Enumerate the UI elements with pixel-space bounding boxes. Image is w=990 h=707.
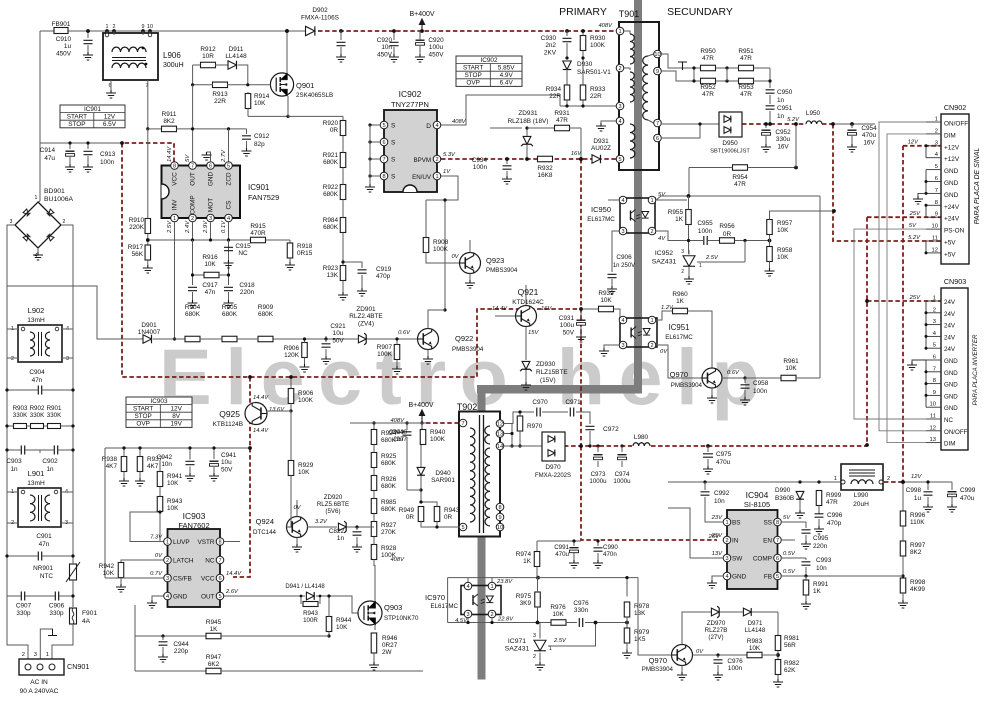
svg-text:GND: GND bbox=[944, 358, 958, 365]
svg-text:2.5V: 2.5V bbox=[167, 220, 173, 234]
svg-text:25V: 25V bbox=[909, 211, 921, 217]
svg-text:0R15: 0R15 bbox=[297, 250, 313, 257]
svg-text:R904: R904 bbox=[185, 304, 201, 311]
svg-text:Q923: Q923 bbox=[486, 256, 504, 265]
svg-text:10: 10 bbox=[930, 402, 936, 408]
svg-text:2W: 2W bbox=[382, 649, 393, 656]
svg-text:10K: 10K bbox=[552, 611, 564, 618]
svg-text:10K: 10K bbox=[298, 469, 310, 476]
svg-text:STOP: STOP bbox=[465, 72, 482, 79]
svg-text:5: 5 bbox=[382, 123, 385, 129]
svg-text:100n: 100n bbox=[753, 388, 768, 395]
svg-text:2: 2 bbox=[681, 269, 684, 275]
svg-text:LUVP: LUVP bbox=[173, 539, 190, 546]
svg-text:7: 7 bbox=[461, 421, 464, 427]
svg-text:8: 8 bbox=[382, 174, 385, 180]
svg-text:C921: C921 bbox=[330, 323, 346, 330]
svg-text:56K: 56K bbox=[132, 251, 144, 258]
svg-text:9: 9 bbox=[498, 515, 501, 521]
svg-text:R996: R996 bbox=[910, 512, 926, 519]
svg-text:C930: C930 bbox=[541, 35, 557, 42]
svg-text:R905: R905 bbox=[222, 304, 238, 311]
svg-text:R998: R998 bbox=[910, 579, 926, 586]
svg-text:C919: C919 bbox=[376, 266, 392, 273]
svg-text:PMBS3904: PMBS3904 bbox=[671, 382, 703, 389]
svg-text:408V: 408V bbox=[452, 119, 467, 125]
svg-text:5: 5 bbox=[776, 574, 779, 580]
svg-text:12V: 12V bbox=[104, 113, 116, 120]
svg-text:6: 6 bbox=[933, 355, 936, 361]
svg-text:IC904: IC904 bbox=[746, 490, 769, 500]
svg-text:47n: 47n bbox=[205, 289, 216, 296]
svg-text:0V: 0V bbox=[696, 649, 704, 655]
svg-text:L980: L980 bbox=[634, 434, 649, 441]
svg-text:1u: 1u bbox=[64, 43, 72, 50]
svg-text:R912: R912 bbox=[200, 46, 216, 53]
svg-text:S: S bbox=[391, 140, 396, 147]
svg-text:10K: 10K bbox=[204, 261, 216, 268]
svg-text:R999: R999 bbox=[826, 492, 842, 499]
svg-text:450V: 450V bbox=[429, 51, 445, 58]
svg-text:470u: 470u bbox=[862, 132, 877, 139]
svg-text:680K: 680K bbox=[381, 460, 397, 467]
svg-text:3: 3 bbox=[66, 356, 69, 362]
svg-text:2: 2 bbox=[113, 24, 116, 30]
svg-text:NC: NC bbox=[238, 250, 248, 257]
svg-text:470u: 470u bbox=[960, 495, 975, 502]
svg-text:L990: L990 bbox=[854, 492, 869, 499]
svg-text:1: 1 bbox=[618, 29, 621, 35]
svg-text:IC903: IC903 bbox=[183, 511, 206, 521]
svg-text:IC903: IC903 bbox=[150, 398, 167, 405]
svg-text:LATCH: LATCH bbox=[173, 558, 194, 565]
svg-text:13.6V: 13.6V bbox=[269, 407, 285, 413]
svg-text:120K: 120K bbox=[284, 352, 300, 359]
svg-text:C974: C974 bbox=[615, 471, 630, 478]
svg-text:R907: R907 bbox=[377, 344, 393, 351]
svg-text:KTB1124B: KTB1124B bbox=[213, 421, 243, 428]
svg-text:C906: C906 bbox=[616, 254, 632, 261]
svg-text:16V: 16V bbox=[571, 151, 582, 157]
svg-text:STOP: STOP bbox=[135, 413, 152, 420]
svg-text:GND: GND bbox=[944, 405, 958, 412]
svg-text:START: START bbox=[463, 64, 483, 71]
svg-text:2: 2 bbox=[435, 157, 438, 163]
svg-text:+24V: +24V bbox=[944, 216, 960, 223]
svg-text:IC901: IC901 bbox=[84, 106, 101, 113]
svg-text:3K9: 3K9 bbox=[520, 600, 532, 607]
svg-text:7: 7 bbox=[776, 538, 779, 544]
svg-text:47R: 47R bbox=[702, 55, 714, 62]
svg-text:8V: 8V bbox=[172, 413, 181, 420]
svg-text:2: 2 bbox=[618, 66, 621, 72]
svg-text:470u: 470u bbox=[555, 551, 569, 558]
svg-text:1n 250V: 1n 250V bbox=[613, 263, 635, 269]
svg-text:INV: INV bbox=[172, 199, 179, 210]
svg-text:8: 8 bbox=[498, 505, 501, 511]
svg-text:4: 4 bbox=[621, 318, 624, 324]
svg-text:D901: D901 bbox=[141, 322, 157, 329]
svg-text:10K: 10K bbox=[600, 297, 612, 304]
svg-text:3: 3 bbox=[933, 319, 936, 325]
svg-text:25V: 25V bbox=[708, 534, 720, 540]
svg-text:COMP: COMP bbox=[753, 556, 772, 563]
svg-text:SW: SW bbox=[732, 556, 743, 563]
svg-text:R978: R978 bbox=[634, 603, 650, 610]
svg-text:47R: 47R bbox=[740, 91, 752, 98]
svg-text:EL617MC: EL617MC bbox=[430, 603, 458, 610]
svg-text:3: 3 bbox=[621, 343, 624, 349]
svg-text:C941: C941 bbox=[221, 452, 237, 459]
svg-text:19V: 19V bbox=[170, 421, 182, 428]
svg-text:3: 3 bbox=[533, 633, 536, 639]
svg-text:50V: 50V bbox=[221, 466, 233, 473]
svg-text:C970: C970 bbox=[532, 399, 548, 406]
svg-text:11: 11 bbox=[932, 236, 938, 242]
svg-text:R955: R955 bbox=[668, 209, 684, 216]
svg-text:SI-8105: SI-8105 bbox=[744, 500, 770, 509]
svg-text:4: 4 bbox=[621, 198, 624, 204]
svg-text:R915: R915 bbox=[250, 223, 266, 230]
svg-text:8K2: 8K2 bbox=[163, 118, 175, 125]
svg-text:C972: C972 bbox=[603, 426, 619, 433]
svg-text:1K: 1K bbox=[523, 558, 532, 565]
svg-text:+12V: +12V bbox=[944, 144, 960, 151]
svg-text:DIM: DIM bbox=[944, 441, 955, 448]
svg-text:0.5V: 0.5V bbox=[783, 551, 796, 557]
svg-text:+5V: +5V bbox=[944, 251, 956, 258]
svg-text:KTD1624C: KTD1624C bbox=[512, 299, 544, 306]
svg-text:PMBS3904: PMBS3904 bbox=[642, 666, 674, 673]
svg-text:SAZ431: SAZ431 bbox=[652, 259, 677, 266]
svg-text:R924: R924 bbox=[381, 430, 397, 437]
svg-text:10K: 10K bbox=[749, 645, 761, 652]
svg-text:CS/FB: CS/FB bbox=[173, 576, 192, 583]
svg-text:BD901: BD901 bbox=[44, 188, 65, 195]
svg-text:470p: 470p bbox=[376, 273, 391, 280]
svg-text:+24V: +24V bbox=[944, 204, 960, 211]
svg-text:8: 8 bbox=[933, 378, 936, 384]
svg-text:SBT19006LJST: SBT19006LJST bbox=[710, 149, 750, 155]
svg-text:9: 9 bbox=[935, 212, 938, 218]
svg-text:25V: 25V bbox=[909, 295, 921, 301]
svg-text:2: 2 bbox=[191, 216, 194, 222]
svg-text:FMXA-2202S: FMXA-2202S bbox=[535, 473, 571, 479]
svg-text:L950: L950 bbox=[806, 110, 821, 117]
svg-text:GND: GND bbox=[944, 168, 959, 175]
svg-text:24V: 24V bbox=[944, 311, 956, 318]
svg-text:13: 13 bbox=[930, 437, 936, 443]
svg-text:GND: GND bbox=[944, 382, 958, 389]
svg-text:S: S bbox=[391, 174, 396, 181]
svg-text:1: 1 bbox=[650, 198, 653, 204]
svg-text:L901: L901 bbox=[28, 469, 45, 478]
svg-text:2.6V: 2.6V bbox=[225, 589, 239, 595]
svg-text:RLZ5.6BTE: RLZ5.6BTE bbox=[317, 501, 349, 508]
svg-text:2SK4065SLB: 2SK4065SLB bbox=[296, 92, 333, 99]
svg-text:470n: 470n bbox=[603, 551, 617, 558]
svg-text:R910: R910 bbox=[129, 217, 145, 224]
svg-text:12V: 12V bbox=[911, 474, 922, 480]
svg-text:1: 1 bbox=[35, 195, 38, 201]
svg-text:3: 3 bbox=[681, 249, 684, 255]
svg-text:FB: FB bbox=[764, 574, 772, 581]
svg-text:C976: C976 bbox=[573, 600, 589, 607]
svg-text:10K: 10K bbox=[777, 227, 789, 234]
svg-text:680K: 680K bbox=[323, 159, 339, 166]
svg-text:SAR901: SAR901 bbox=[431, 477, 455, 484]
svg-text:AU02Z: AU02Z bbox=[591, 145, 611, 152]
svg-text:1N4007: 1N4007 bbox=[138, 329, 161, 336]
svg-text:C995: C995 bbox=[813, 535, 829, 542]
svg-text:OUT: OUT bbox=[190, 172, 197, 186]
svg-text:47R: 47R bbox=[826, 499, 838, 506]
svg-text:FMXA-1106S: FMXA-1106S bbox=[301, 14, 339, 21]
svg-text:GND: GND bbox=[944, 370, 958, 377]
svg-text:R946: R946 bbox=[382, 635, 398, 642]
svg-text:6K2: 6K2 bbox=[208, 661, 220, 668]
svg-text:C904: C904 bbox=[29, 369, 45, 376]
svg-text:5V: 5V bbox=[185, 154, 191, 162]
svg-text:2: 2 bbox=[22, 652, 25, 658]
svg-text:Q925: Q925 bbox=[219, 409, 240, 419]
svg-text:1n: 1n bbox=[337, 535, 345, 542]
svg-text:(5V6): (5V6) bbox=[325, 508, 340, 515]
svg-text:10n: 10n bbox=[816, 565, 827, 572]
svg-text:EN/UV: EN/UV bbox=[412, 174, 432, 181]
svg-text:GND: GND bbox=[173, 594, 188, 601]
svg-text:6: 6 bbox=[656, 136, 659, 142]
svg-text:EL617MC: EL617MC bbox=[587, 216, 615, 223]
svg-text:10: 10 bbox=[654, 52, 660, 58]
svg-text:47n: 47n bbox=[39, 541, 50, 548]
svg-text:2n2: 2n2 bbox=[545, 42, 556, 49]
svg-text:5V: 5V bbox=[783, 515, 791, 521]
svg-text:12V: 12V bbox=[908, 140, 919, 146]
svg-text:4K7: 4K7 bbox=[106, 463, 118, 470]
svg-text:7.3V: 7.3V bbox=[150, 535, 163, 541]
svg-text:D950: D950 bbox=[722, 140, 738, 147]
svg-text:B+400V: B+400V bbox=[408, 402, 433, 409]
svg-text:8: 8 bbox=[173, 164, 176, 170]
svg-text:8K2: 8K2 bbox=[910, 549, 922, 556]
svg-text:300uH: 300uH bbox=[163, 62, 184, 69]
svg-text:2: 2 bbox=[933, 307, 936, 313]
svg-text:R914: R914 bbox=[254, 93, 270, 100]
svg-text:8: 8 bbox=[935, 200, 938, 206]
svg-text:C915: C915 bbox=[235, 243, 251, 250]
svg-text:6.4V: 6.4V bbox=[500, 80, 514, 87]
svg-text:330u: 330u bbox=[776, 136, 791, 143]
svg-text:NR901: NR901 bbox=[33, 565, 53, 572]
svg-text:LL4148: LL4148 bbox=[745, 627, 766, 634]
svg-text:1: 1 bbox=[173, 216, 176, 222]
svg-text:S: S bbox=[391, 157, 396, 164]
svg-text:100R: 100R bbox=[303, 617, 318, 624]
svg-text:5V: 5V bbox=[909, 223, 917, 229]
svg-text:C971: C971 bbox=[565, 399, 581, 406]
svg-text:R961: R961 bbox=[783, 358, 799, 365]
svg-text:S: S bbox=[391, 123, 396, 130]
svg-text:ZD920: ZD920 bbox=[324, 494, 343, 501]
svg-text:3: 3 bbox=[166, 576, 169, 582]
svg-text:EL617MC: EL617MC bbox=[665, 334, 693, 341]
svg-text:R916: R916 bbox=[202, 254, 218, 261]
svg-text:47R: 47R bbox=[556, 117, 568, 124]
svg-text:4.5V: 4.5V bbox=[455, 618, 468, 624]
svg-text:RLZ18B (18V): RLZ18B (18V) bbox=[508, 118, 549, 125]
svg-text:14.4V: 14.4V bbox=[226, 571, 242, 577]
svg-text:R928: R928 bbox=[381, 545, 397, 552]
svg-text:4: 4 bbox=[466, 584, 469, 590]
svg-text:R925: R925 bbox=[381, 453, 397, 460]
svg-text:STOP: STOP bbox=[68, 121, 85, 128]
svg-text:C976: C976 bbox=[727, 658, 743, 665]
svg-text:R929: R929 bbox=[298, 462, 314, 469]
svg-text:L906: L906 bbox=[163, 51, 181, 60]
svg-text:3: 3 bbox=[34, 652, 37, 658]
svg-text:C906: C906 bbox=[49, 603, 65, 610]
svg-text:100K: 100K bbox=[430, 436, 446, 443]
svg-text:0R: 0R bbox=[723, 231, 732, 238]
svg-text:100n: 100n bbox=[473, 164, 488, 171]
svg-text:470p: 470p bbox=[827, 520, 842, 527]
svg-text:2: 2 bbox=[650, 343, 653, 349]
svg-text:R952: R952 bbox=[700, 84, 716, 91]
svg-text:16K8: 16K8 bbox=[538, 172, 553, 179]
svg-text:C955: C955 bbox=[697, 220, 713, 227]
svg-text:0V: 0V bbox=[660, 349, 668, 355]
svg-text:FAN7529: FAN7529 bbox=[248, 193, 279, 202]
svg-text:4: 4 bbox=[435, 123, 438, 129]
svg-text:10K: 10K bbox=[785, 365, 797, 372]
svg-text:680K: 680K bbox=[323, 224, 339, 231]
svg-text:13V: 13V bbox=[712, 551, 723, 557]
svg-text:7: 7 bbox=[218, 558, 221, 564]
svg-text:R954: R954 bbox=[732, 174, 748, 181]
svg-text:R974: R974 bbox=[516, 551, 532, 558]
svg-text:1K: 1K bbox=[675, 216, 684, 223]
svg-text:C903: C903 bbox=[6, 458, 22, 465]
svg-text:GND: GND bbox=[208, 172, 215, 187]
svg-text:R901: R901 bbox=[47, 405, 62, 412]
svg-text:C991: C991 bbox=[554, 544, 569, 551]
svg-text:Q970: Q970 bbox=[649, 656, 667, 665]
svg-text:PARA PLACA DE SINAL: PARA PLACA DE SINAL bbox=[974, 148, 981, 225]
svg-text:0.5V: 0.5V bbox=[783, 569, 796, 575]
svg-text:T901: T901 bbox=[619, 9, 640, 19]
svg-text:1K: 1K bbox=[813, 588, 822, 595]
svg-text:SAR501-V1: SAR501-V1 bbox=[577, 69, 611, 76]
svg-text:CS: CS bbox=[226, 201, 233, 210]
svg-text:1000u: 1000u bbox=[613, 478, 631, 485]
svg-text:9: 9 bbox=[142, 24, 145, 30]
svg-text:1: 1 bbox=[935, 117, 938, 123]
svg-text:4: 4 bbox=[725, 574, 728, 580]
svg-text:5: 5 bbox=[461, 525, 464, 531]
svg-text:10n: 10n bbox=[714, 498, 725, 505]
svg-text:9: 9 bbox=[933, 390, 936, 396]
svg-text:2: 2 bbox=[887, 476, 890, 482]
svg-text:13mH: 13mH bbox=[27, 480, 45, 487]
svg-text:EN: EN bbox=[763, 538, 772, 545]
svg-text:9: 9 bbox=[656, 69, 659, 75]
svg-text:6.5V: 6.5V bbox=[103, 121, 117, 128]
svg-text:D911: D911 bbox=[229, 46, 244, 53]
svg-text:+12V: +12V bbox=[944, 156, 960, 163]
svg-text:7: 7 bbox=[935, 188, 938, 194]
svg-text:7: 7 bbox=[382, 157, 385, 163]
svg-text:IC902: IC902 bbox=[399, 89, 422, 99]
svg-text:408V: 408V bbox=[390, 557, 405, 563]
svg-text:12V: 12V bbox=[170, 405, 182, 412]
svg-text:330p: 330p bbox=[16, 610, 31, 617]
svg-text:GND: GND bbox=[732, 574, 747, 581]
svg-text:47R: 47R bbox=[702, 91, 714, 98]
svg-text:220n: 220n bbox=[240, 289, 255, 296]
svg-text:R949: R949 bbox=[399, 507, 415, 514]
svg-text:2: 2 bbox=[725, 538, 728, 544]
svg-text:1n: 1n bbox=[777, 113, 785, 120]
svg-text:ON/OFF: ON/OFF bbox=[944, 429, 968, 436]
svg-text:D931: D931 bbox=[593, 138, 609, 145]
svg-text:4: 4 bbox=[35, 253, 38, 259]
svg-text:100K: 100K bbox=[433, 246, 449, 253]
svg-text:680K: 680K bbox=[381, 437, 397, 444]
svg-text:ZD931: ZD931 bbox=[518, 110, 538, 117]
svg-text:R943: R943 bbox=[303, 610, 318, 617]
svg-text:COMP: COMP bbox=[190, 195, 197, 214]
svg-text:0V: 0V bbox=[293, 505, 301, 511]
svg-text:4A: 4A bbox=[82, 618, 91, 625]
svg-text:1: 1 bbox=[490, 584, 493, 590]
svg-text:90 A 240VAC: 90 A 240VAC bbox=[20, 688, 59, 695]
svg-text:LL4148: LL4148 bbox=[225, 53, 247, 60]
svg-text:R934: R934 bbox=[546, 86, 562, 93]
svg-text:23.8V: 23.8V bbox=[496, 579, 513, 585]
svg-text:C992: C992 bbox=[714, 490, 730, 497]
svg-text:110K: 110K bbox=[910, 519, 925, 526]
svg-text:Q924: Q924 bbox=[256, 517, 274, 526]
svg-text:330p: 330p bbox=[49, 610, 64, 617]
svg-text:C999: C999 bbox=[960, 487, 976, 494]
svg-text:24V: 24V bbox=[944, 323, 956, 330]
svg-text:R981: R981 bbox=[784, 635, 800, 642]
svg-text:10K: 10K bbox=[254, 100, 266, 107]
svg-text:C998: C998 bbox=[906, 487, 922, 494]
svg-text:IN: IN bbox=[732, 538, 739, 545]
svg-text:0R: 0R bbox=[444, 514, 453, 521]
svg-text:Q970: Q970 bbox=[670, 370, 688, 379]
svg-text:Q922: Q922 bbox=[455, 334, 473, 343]
svg-text:R927: R927 bbox=[381, 522, 397, 529]
svg-text:20uH: 20uH bbox=[853, 501, 869, 508]
svg-text:3.2V: 3.2V bbox=[315, 519, 328, 525]
svg-text:C990: C990 bbox=[603, 544, 618, 551]
svg-text:13mH: 13mH bbox=[27, 317, 45, 324]
svg-text:4: 4 bbox=[227, 216, 230, 222]
svg-text:0.7V: 0.7V bbox=[150, 571, 163, 577]
svg-text:C910: C910 bbox=[56, 36, 72, 43]
svg-text:Q903: Q903 bbox=[384, 603, 402, 612]
svg-text:14.4V: 14.4V bbox=[253, 428, 269, 434]
svg-text:24V: 24V bbox=[944, 334, 956, 341]
svg-text:0.1V: 0.1V bbox=[221, 220, 227, 233]
svg-text:NC: NC bbox=[944, 417, 953, 424]
svg-text:IC952: IC952 bbox=[655, 250, 673, 257]
svg-text:680K: 680K bbox=[222, 311, 238, 318]
svg-text:D971: D971 bbox=[748, 620, 763, 627]
